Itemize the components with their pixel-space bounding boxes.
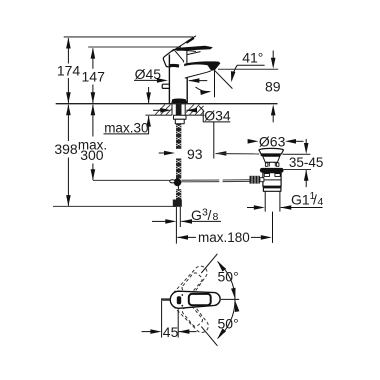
flexible hose upper segment bbox=[176, 124, 181, 149]
reference line hose end level bbox=[53, 205, 176, 207]
dimension D63 bbox=[248, 133, 304, 149]
top view lever centerline bbox=[221, 298, 239, 300]
hose end nut G3/8 bbox=[173, 200, 182, 244]
dimension max.180 bbox=[177, 230, 272, 245]
basin deck line left of drain bbox=[216, 153, 260, 155]
faucet loop handle bbox=[163, 49, 196, 67]
label G3/8 bbox=[152, 207, 221, 224]
faucet pull-rod knob bbox=[162, 84, 169, 88]
countertop deck top line bbox=[56, 103, 278, 105]
reference line pop-up rod level bbox=[93, 179, 170, 181]
top view phantom lever down bbox=[167, 288, 212, 337]
svg-text:8: 8 bbox=[213, 211, 219, 223]
top view pull-rod stub bbox=[161, 298, 170, 301]
svg-text:/: / bbox=[313, 191, 317, 207]
dimension 35-45 bbox=[284, 139, 324, 187]
dimension 93 bbox=[159, 146, 227, 162]
label D45 with leader bbox=[134, 66, 207, 83]
svg-text:45: 45 bbox=[163, 324, 179, 340]
drain centerline extension bbox=[272, 212, 274, 243]
faucet lever arm bbox=[177, 46, 213, 55]
svg-text:147: 147 bbox=[82, 69, 106, 85]
top view phantom lever up bbox=[167, 263, 212, 312]
dimension 174 bbox=[57, 38, 81, 104]
svg-text:93: 93 bbox=[187, 146, 203, 162]
41 degree annotation bbox=[196, 50, 265, 98]
drain tail block bbox=[263, 186, 281, 191]
reference line spout top level bbox=[88, 46, 181, 48]
svg-text:41°: 41° bbox=[242, 50, 263, 66]
rotation extension line down bbox=[201, 327, 217, 346]
pop-up rod ball joint bbox=[170, 178, 182, 189]
faucet base cone bbox=[171, 99, 187, 104]
dimension max.30 bbox=[104, 87, 151, 135]
svg-text:174: 174 bbox=[57, 63, 81, 79]
faucet spout bbox=[184, 61, 220, 78]
faucet hole edges in deck bbox=[172, 104, 185, 115]
shank and mounting hardware bbox=[174, 104, 187, 124]
svg-text:398: 398 bbox=[54, 141, 78, 157]
reference line lever top level bbox=[64, 36, 194, 38]
label 50 degrees bottom bbox=[218, 316, 239, 332]
svg-text:G: G bbox=[191, 207, 202, 223]
svg-text:300: 300 bbox=[80, 147, 104, 163]
svg-text:50°: 50° bbox=[218, 316, 239, 332]
svg-text:max.180: max.180 bbox=[198, 230, 250, 245]
svg-text:/: / bbox=[208, 207, 212, 223]
flexible hose lower segment bbox=[176, 189, 181, 199]
faucet lever blade tip bbox=[172, 36, 196, 52]
svg-text:50°: 50° bbox=[218, 269, 239, 285]
basin deck line right of drain bbox=[283, 153, 311, 155]
drain body bbox=[263, 173, 281, 187]
drain dome bbox=[259, 148, 284, 156]
flexible hose middle segment bbox=[176, 159, 181, 179]
deck hatching bbox=[155, 104, 204, 114]
drain tailpipe bbox=[265, 191, 280, 211]
svg-text:4: 4 bbox=[318, 196, 324, 208]
label 50 degrees top bbox=[218, 269, 239, 285]
rotation extension line up bbox=[201, 254, 217, 273]
svg-text:89: 89 bbox=[265, 79, 281, 95]
drain rod connector bbox=[250, 176, 264, 184]
rotation arc bbox=[216, 260, 240, 340]
svg-text:G1: G1 bbox=[291, 191, 310, 207]
drain neck bbox=[263, 156, 280, 166]
dimension 45 bbox=[142, 301, 197, 340]
label G1 1/4 bbox=[247, 190, 324, 210]
dimension 398 bbox=[54, 104, 78, 206]
drain flange bbox=[260, 168, 284, 173]
dimension 89 bbox=[218, 51, 281, 123]
countertop deck bottom line bbox=[146, 114, 205, 116]
dimension max.300 bbox=[78, 104, 107, 180]
label D34 boxed bbox=[153, 106, 231, 158]
faucet body side view bbox=[169, 55, 187, 104]
top view faucet capsule bbox=[170, 291, 220, 308]
svg-text:35-45: 35-45 bbox=[289, 155, 324, 170]
dimension 147 bbox=[82, 48, 106, 104]
pop-up rod horizontal bbox=[181, 180, 249, 182]
svg-text:Ø63: Ø63 bbox=[259, 133, 286, 149]
svg-text:max.30: max.30 bbox=[104, 120, 148, 135]
svg-text:Ø34: Ø34 bbox=[204, 107, 231, 123]
